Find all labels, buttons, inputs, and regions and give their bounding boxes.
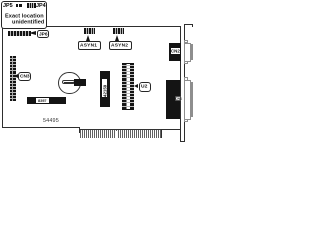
crystal inner line	[64, 81, 74, 84]
board bottom edge right segment	[161, 129, 181, 130]
board top edge	[2, 26, 180, 27]
ASYN1 callout text	[80, 43, 97, 48]
ASYN2 callout box	[109, 41, 132, 50]
CN3 callout box	[18, 72, 31, 82]
DB15 body	[184, 80, 191, 120]
edge connector fingers	[80, 129, 161, 138]
IC 42159 body	[100, 71, 110, 108]
magnifier circle	[58, 72, 81, 95]
ASYN2 callout text	[111, 43, 128, 48]
callout text line 2	[12, 19, 44, 24]
silkscreen 54495	[43, 118, 59, 123]
IC 8397 label text	[38, 99, 47, 103]
IC 8397 label plate	[36, 98, 49, 103]
bracket top tab horizontal	[184, 24, 193, 25]
jumper JP4 label	[36, 3, 46, 8]
callout box: exact location unidentified	[1, 1, 48, 29]
bracket left line	[180, 26, 181, 142]
connector CN2 body	[169, 43, 181, 61]
JP6 callout text	[39, 32, 48, 37]
U2 callout box	[139, 82, 151, 92]
jumper JP5 label	[3, 3, 13, 8]
U2 callout arrow	[134, 84, 138, 88]
header U2	[122, 63, 134, 110]
connector CN1 body	[166, 80, 180, 120]
DB15 face	[191, 82, 194, 117]
bracket right line	[184, 24, 185, 142]
CN2 label plate	[171, 48, 181, 54]
U2 callout text	[141, 84, 147, 89]
crystal capsule inside magnifier	[62, 80, 75, 84]
ASYN1 callout box	[78, 41, 101, 50]
fingers key gap	[116, 131, 119, 139]
connector JP6	[8, 31, 31, 36]
DB15 bottom ear	[184, 119, 188, 122]
DB9 face	[191, 44, 194, 59]
jumper JP4 icon	[27, 3, 36, 8]
header CN3	[10, 56, 16, 101]
board bottom step left	[79, 127, 80, 133]
IC 8397 body	[27, 97, 66, 105]
CN1 label text	[175, 97, 182, 101]
callout text line 1	[5, 13, 44, 18]
board bottom step right	[161, 129, 162, 138]
jumper JP5 icon	[16, 4, 19, 8]
DB9 bottom ear	[184, 61, 188, 64]
connector ASYN2	[113, 28, 124, 34]
board bottom edge left segment	[2, 127, 80, 128]
ASYN1 callout arrow	[86, 35, 90, 41]
connector ASYN1	[84, 28, 95, 34]
JP6 callout box	[37, 30, 49, 39]
CN3 callout text	[20, 74, 30, 79]
board left edge	[2, 27, 3, 128]
ASYN2 callout arrow	[115, 35, 119, 41]
DB15 top ear	[184, 77, 188, 80]
CN2 label text	[171, 49, 180, 53]
bracket top tab vertical	[192, 24, 193, 28]
DB9 top ear	[184, 40, 188, 43]
magnifier handle	[74, 79, 86, 86]
IC 42159 label	[102, 79, 107, 97]
DB9 body	[184, 43, 191, 62]
bracket bottom joint	[180, 141, 185, 142]
CN1 label plate	[175, 96, 182, 102]
JP6 callout arrow	[29, 31, 36, 35]
CN3 callout arrow	[14, 74, 18, 78]
